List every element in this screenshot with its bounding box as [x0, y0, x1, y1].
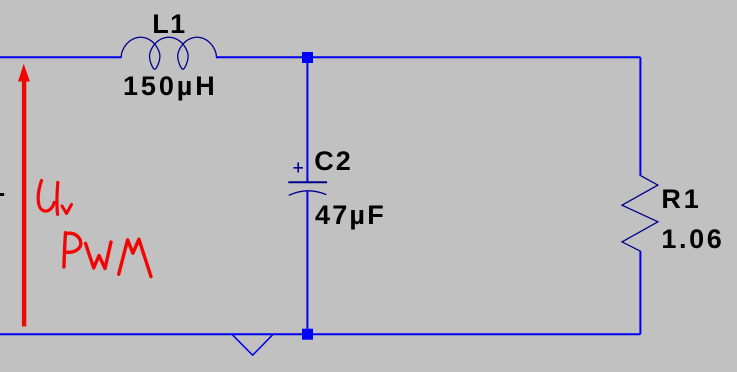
capacitor C2 top plate [288, 181, 327, 183]
wire top-middle segment [216, 56, 302, 58]
ground symbol [232, 334, 273, 355]
label 150µH [123, 73, 218, 100]
label 47µF [315, 202, 386, 229]
capacitor C2 bottom curved plate [289, 191, 327, 196]
wire bottom segment [0, 333, 640, 335]
handwritten label PWM (red) [64, 233, 151, 277]
wire top-left segment [0, 56, 122, 58]
label R1 [661, 186, 701, 213]
label 1.06 [661, 226, 724, 253]
node junction square top [302, 52, 313, 63]
handwritten label Uv (red) [38, 181, 71, 215]
wire right vertical lower [639, 251, 641, 334]
capacitor C2 plus sign [294, 162, 303, 172]
label C2 [314, 148, 353, 175]
wire capacitor bottom lead [306, 191, 308, 329]
label L1 [152, 11, 187, 38]
stray minus mark at left edge [0, 193, 6, 196]
node junction square bottom [302, 329, 313, 340]
wire top-right segment [313, 56, 640, 58]
resistor R1 zigzag [622, 176, 658, 252]
voltage arrow (red) [19, 65, 29, 326]
wire capacitor top lead [306, 63, 308, 182]
wire right vertical upper [639, 57, 641, 176]
inductor L1 [121, 37, 216, 69]
